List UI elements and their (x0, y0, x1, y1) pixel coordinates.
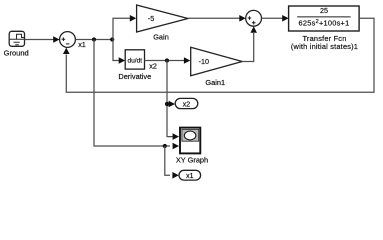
wire x1 to x1 display (165, 146, 179, 179)
svg-text:XY Graph: XY Graph (176, 155, 208, 164)
svg-text:x2: x2 (149, 62, 157, 71)
svg-text:Gain1: Gain1 (205, 78, 225, 87)
junction dot x2 (165, 58, 169, 62)
svg-text:Ground: Ground (4, 49, 29, 58)
wire x2 vertical to XY Graph first input (167, 61, 179, 140)
svg-text:x1: x1 (78, 40, 86, 49)
svg-text:Derivative: Derivative (118, 72, 151, 81)
node x1 label (78, 40, 86, 49)
wire Derivative to Gain1 (145, 57, 191, 64)
wire to Derivative (113, 40, 125, 64)
display x1 (179, 170, 201, 180)
ground block Ground (4, 31, 29, 57)
svg-text:Gain: Gain (153, 32, 169, 41)
wire x1 to XY Graph second input (94, 40, 179, 150)
svg-text:(with initial states)1: (with initial states)1 (291, 42, 358, 51)
junction dot branch to Gain and Derivative (110, 37, 114, 41)
svg-text:x2: x2 (183, 101, 191, 108)
svg-text:x1: x1 (186, 173, 194, 180)
xy graph XY Graph (176, 128, 208, 165)
display x2 (175, 98, 198, 108)
gain Gain1 value -10 (191, 47, 243, 87)
wire Sum2 to Transfer Fcn (262, 15, 289, 22)
junction dot x1 bottom branch (163, 144, 167, 148)
svg-text:625s2+100s+1: 625s2+100s+1 (299, 18, 350, 27)
svg-text:25: 25 (320, 6, 328, 15)
wire branch to x2 display (167, 101, 175, 108)
sum junction Sum1 (60, 32, 76, 48)
junction dot x2 display branch (165, 102, 169, 106)
transfer function Transfer Fcn (with initial states)1 (289, 6, 360, 51)
svg-text:du/dt: du/dt (127, 57, 142, 64)
derivative block Derivative (118, 50, 151, 81)
svg-text:-5: -5 (148, 14, 154, 23)
node x2 label (149, 62, 157, 71)
wire Sum1 output (75, 39, 113, 41)
wire feedback Transfer Fcn to Sum1 minus input (63, 18, 374, 92)
wire Gain to Sum2 (188, 15, 246, 22)
junction dot x1 branch down (92, 37, 96, 41)
gain Gain value -5 (137, 5, 188, 41)
wire Gain1 to Sum2 plus input (242, 26, 257, 61)
svg-text:-10: -10 (199, 57, 209, 66)
wire to Gain (113, 15, 136, 40)
sum junction Sum2 (246, 10, 262, 26)
wire Ground to Sum1 (25, 36, 60, 43)
